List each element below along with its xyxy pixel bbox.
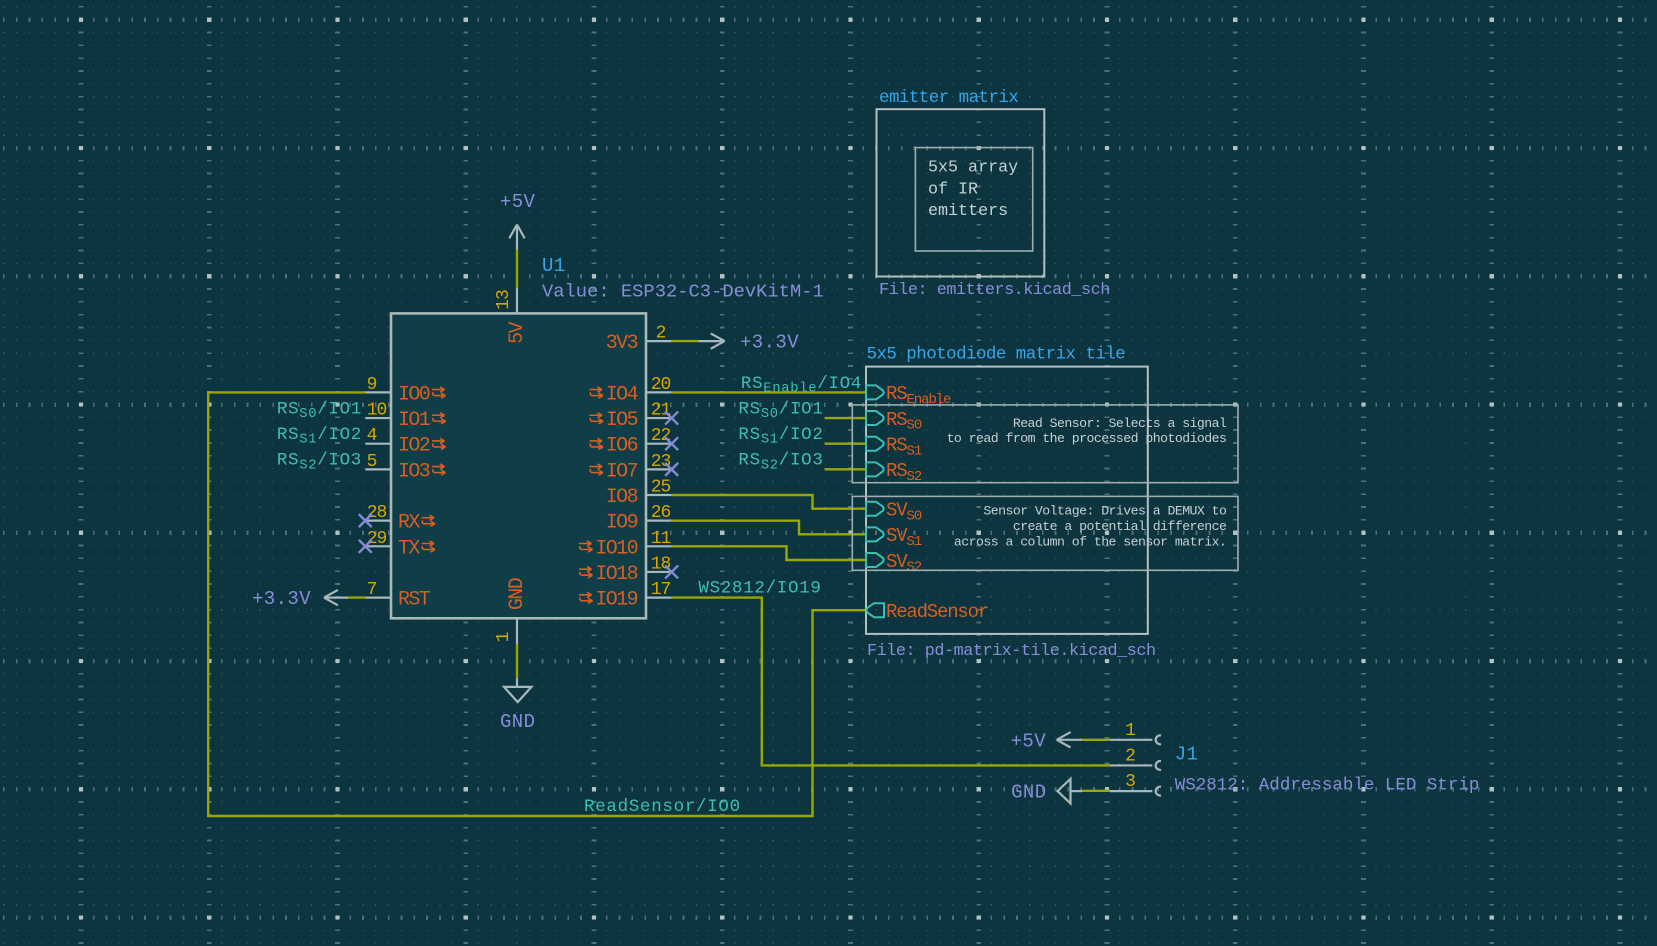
svg-text:18: 18 bbox=[651, 554, 671, 574]
svg-text:22: 22 bbox=[651, 426, 671, 446]
svg-text:25: 25 bbox=[651, 478, 671, 498]
sheet pin RSS1 bbox=[866, 435, 922, 460]
text box Sensor Voltage note bbox=[852, 496, 1238, 570]
svg-text:RX: RX bbox=[398, 512, 420, 535]
wire +5V to U1 5V pin bbox=[516, 250, 518, 288]
sheet 5x5 photodiode matrix tile bbox=[866, 367, 1148, 634]
wire ReadSensor from sheet to IO0 bbox=[208, 392, 866, 816]
svg-text:IO2: IO2 bbox=[398, 435, 430, 458]
svg-text:Value: ESP32-C3-DevKitM-1: Value: ESP32-C3-DevKitM-1 bbox=[542, 281, 824, 303]
wire stub RSS2 into sheet bbox=[825, 468, 866, 470]
wire U1 GND pin to GND symbol bbox=[516, 644, 518, 678]
svg-text:IO0: IO0 bbox=[398, 383, 430, 406]
svg-text:TX: TX bbox=[398, 537, 420, 560]
pin IO7 (23) of U1, right side bbox=[590, 452, 672, 484]
svg-text:23: 23 bbox=[651, 452, 671, 472]
svg-text:2: 2 bbox=[656, 324, 666, 344]
svg-text:11: 11 bbox=[651, 529, 671, 549]
svg-text:5x5 array: 5x5 array bbox=[928, 159, 1018, 178]
svg-text:emitters: emitters bbox=[928, 202, 1008, 221]
wire IO9 to sheet pin SVS1 bbox=[672, 521, 866, 535]
svg-text:ReadSensor/IO0: ReadSensor/IO0 bbox=[584, 797, 741, 817]
connector J1 pin 2 bbox=[1110, 746, 1161, 769]
svg-text:2: 2 bbox=[1125, 746, 1135, 766]
sheet pin SVS1 bbox=[866, 525, 922, 550]
svg-text:WS2812/IO19: WS2812/IO19 bbox=[698, 579, 821, 599]
svg-text:+5V: +5V bbox=[500, 191, 536, 213]
connector J1 pin 1 bbox=[1110, 721, 1161, 744]
pin IO0 (9) of U1, left side bbox=[365, 375, 445, 407]
sheet pin RSS2 bbox=[866, 460, 922, 485]
no-connect X on pin IO6 bbox=[665, 437, 678, 450]
svg-text:U1: U1 bbox=[542, 255, 565, 277]
svg-text:Sensor Voltage: Drives a DEMUX: Sensor Voltage: Drives a DEMUX to bbox=[983, 503, 1227, 518]
wire IO19 WS2812 to J1 pin 2 bbox=[672, 598, 1110, 766]
wire IO10 to sheet pin SVS2 bbox=[672, 546, 866, 560]
wire stub RSS0 into sheet bbox=[825, 417, 866, 419]
pin IO5 (21) of U1, right side bbox=[590, 401, 672, 433]
svg-text:create a potential difference: create a potential difference bbox=[1013, 519, 1227, 534]
svg-text:GND: GND bbox=[500, 711, 535, 733]
svg-text:WS2812: Addressable LED Strip: WS2812: Addressable LED Strip bbox=[1175, 775, 1480, 795]
svg-text:RSS2​/IO3: RSS2​/IO3 bbox=[277, 451, 362, 474]
wire IO4 to sheet pin RSEnable bbox=[672, 391, 866, 393]
sheet pin RSEnable bbox=[866, 383, 951, 408]
svg-text:IO1: IO1 bbox=[398, 409, 431, 432]
svg-text:RSS2​/IO3: RSS2​/IO3 bbox=[738, 451, 823, 474]
sheet pin SVS0 bbox=[866, 500, 922, 525]
svg-text:IO5: IO5 bbox=[606, 409, 638, 432]
svg-text:GND: GND bbox=[506, 578, 529, 610]
svg-text:IO6: IO6 bbox=[606, 435, 638, 458]
svg-text:File: pd-matrix-tile.kicad_sch: File: pd-matrix-tile.kicad_sch bbox=[867, 642, 1156, 661]
svg-text:across a column of the sensor: across a column of the sensor matrix. bbox=[954, 535, 1226, 550]
svg-text:7: 7 bbox=[367, 580, 377, 600]
pin IO1 (10) of U1, left side bbox=[365, 401, 445, 433]
pin RX (28) of U1, left side bbox=[365, 503, 435, 535]
pin IO9 (26) of U1, right side bbox=[606, 503, 672, 535]
svg-text:3: 3 bbox=[1125, 772, 1135, 792]
power symbol +3.3V right of pin 3V3 bbox=[699, 331, 800, 353]
svg-text:+3.3V: +3.3V bbox=[252, 588, 311, 610]
svg-text:RSS0​/IO1: RSS0​/IO1 bbox=[738, 399, 823, 422]
svg-text:20: 20 bbox=[651, 375, 671, 395]
svg-text:+3.3V: +3.3V bbox=[740, 331, 799, 353]
svg-text:1: 1 bbox=[1125, 721, 1135, 741]
no-connect X on pin RX bbox=[359, 514, 372, 527]
sheet pin ReadSensor (output) bbox=[866, 601, 988, 623]
pin IO4 (20) of U1, right side bbox=[590, 375, 672, 407]
svg-text:of IR: of IR bbox=[928, 180, 978, 199]
svg-text:5: 5 bbox=[367, 452, 377, 472]
svg-text:4: 4 bbox=[367, 426, 377, 446]
svg-text:29: 29 bbox=[367, 529, 387, 549]
svg-text:J1: J1 bbox=[1175, 744, 1198, 766]
svg-text:IO8: IO8 bbox=[606, 486, 638, 509]
wire J1 pin3 to GND bbox=[1082, 790, 1110, 792]
svg-text:28: 28 bbox=[367, 503, 387, 523]
pin RST (7) of U1, left side bbox=[365, 580, 431, 612]
pin IO19 (17) of U1, right side bbox=[579, 580, 672, 612]
ic U1 ESP32-C3-DevKitM-1 body bbox=[391, 313, 646, 618]
wire RST to +3.3V bbox=[348, 596, 365, 598]
pin IO6 (22) of U1, right side bbox=[590, 426, 672, 458]
power symbol GND at J1 pin 3 bbox=[1011, 779, 1082, 804]
wire stub RSS1 into sheet bbox=[825, 443, 866, 445]
pin IO2 (4) of U1, left side bbox=[365, 426, 445, 458]
sheet pin RSS0 bbox=[866, 409, 922, 434]
svg-text:File: emitters.kicad_sch: File: emitters.kicad_sch bbox=[879, 281, 1110, 300]
svg-text:10: 10 bbox=[367, 401, 387, 421]
no-connect X on pin IO7 bbox=[665, 463, 678, 476]
power symbol +5V above U1 bbox=[500, 191, 536, 249]
pin IO3 (5) of U1, left side bbox=[365, 452, 445, 484]
pin TX (29) of U1, left side bbox=[365, 529, 435, 561]
power symbol +5V at J1 pin 1 bbox=[1011, 730, 1082, 752]
svg-text:to read from the processed pho: to read from the processed photodiodes bbox=[947, 431, 1227, 446]
pin 5V (13) of U1, top side bbox=[494, 288, 529, 344]
connector J1 pin 3 bbox=[1110, 772, 1161, 795]
svg-text:RSS0​/IO1: RSS0​/IO1 bbox=[277, 399, 362, 422]
wire J1 pin1 to +5V bbox=[1082, 739, 1110, 741]
no-connect X on pin TX bbox=[359, 540, 372, 553]
power symbol +3.3V left of pin RST bbox=[252, 588, 348, 610]
svg-text:IO18: IO18 bbox=[595, 563, 637, 586]
sheet emitter matrix bbox=[877, 109, 1045, 276]
svg-text:emitter matrix: emitter matrix bbox=[879, 88, 1018, 108]
no-connect X on pin IO5 bbox=[665, 412, 678, 425]
power symbol GND below U1 bbox=[500, 678, 535, 733]
no-connect X on pin IO18 bbox=[665, 565, 678, 578]
svg-text:IO9: IO9 bbox=[606, 512, 638, 535]
svg-text:26: 26 bbox=[651, 503, 671, 523]
svg-text:RSS1​/IO2: RSS1​/IO2 bbox=[738, 425, 823, 448]
pin IO10 (11) of U1, right side bbox=[579, 529, 672, 561]
pin 3V3 (2) of U1, right side bbox=[606, 324, 672, 356]
svg-text:5V: 5V bbox=[506, 322, 529, 344]
svg-text:IO4: IO4 bbox=[606, 383, 638, 406]
sheet pin SVS2 bbox=[866, 551, 922, 576]
wire 3V3 to +3.3V bbox=[672, 340, 699, 342]
svg-text:Read Sensor: Selects a signal: Read Sensor: Selects a signal bbox=[1013, 416, 1227, 431]
svg-text:IO7: IO7 bbox=[606, 460, 638, 483]
svg-text:IO10: IO10 bbox=[595, 537, 637, 560]
svg-text:13: 13 bbox=[494, 290, 514, 310]
wire IO8 to sheet pin SVS0 bbox=[672, 495, 866, 509]
svg-text:5x5 photodiode matrix tile: 5x5 photodiode matrix tile bbox=[867, 344, 1126, 364]
svg-text:IO3: IO3 bbox=[398, 460, 430, 483]
svg-text:+5V: +5V bbox=[1011, 730, 1047, 752]
svg-text:21: 21 bbox=[651, 401, 671, 421]
svg-text:ReadSensor: ReadSensor bbox=[886, 601, 988, 623]
svg-text:3V3: 3V3 bbox=[606, 332, 638, 355]
svg-text:GND: GND bbox=[1011, 782, 1046, 804]
svg-text:RSS1​/IO2: RSS1​/IO2 bbox=[277, 425, 362, 448]
svg-text:9: 9 bbox=[367, 375, 377, 395]
text box Read Sensor note bbox=[852, 405, 1238, 483]
pin IO8 (25) of U1, right side bbox=[606, 478, 672, 510]
svg-text:IO19: IO19 bbox=[595, 589, 637, 612]
pin IO18 (18) of U1, right side bbox=[579, 554, 672, 586]
svg-text:17: 17 bbox=[651, 580, 671, 600]
svg-text:1: 1 bbox=[494, 632, 514, 642]
text box 5x5 array of IR emitters bbox=[915, 148, 1032, 251]
pin GND (1) of U1, bottom side bbox=[494, 578, 529, 644]
svg-text:RST: RST bbox=[398, 589, 431, 612]
